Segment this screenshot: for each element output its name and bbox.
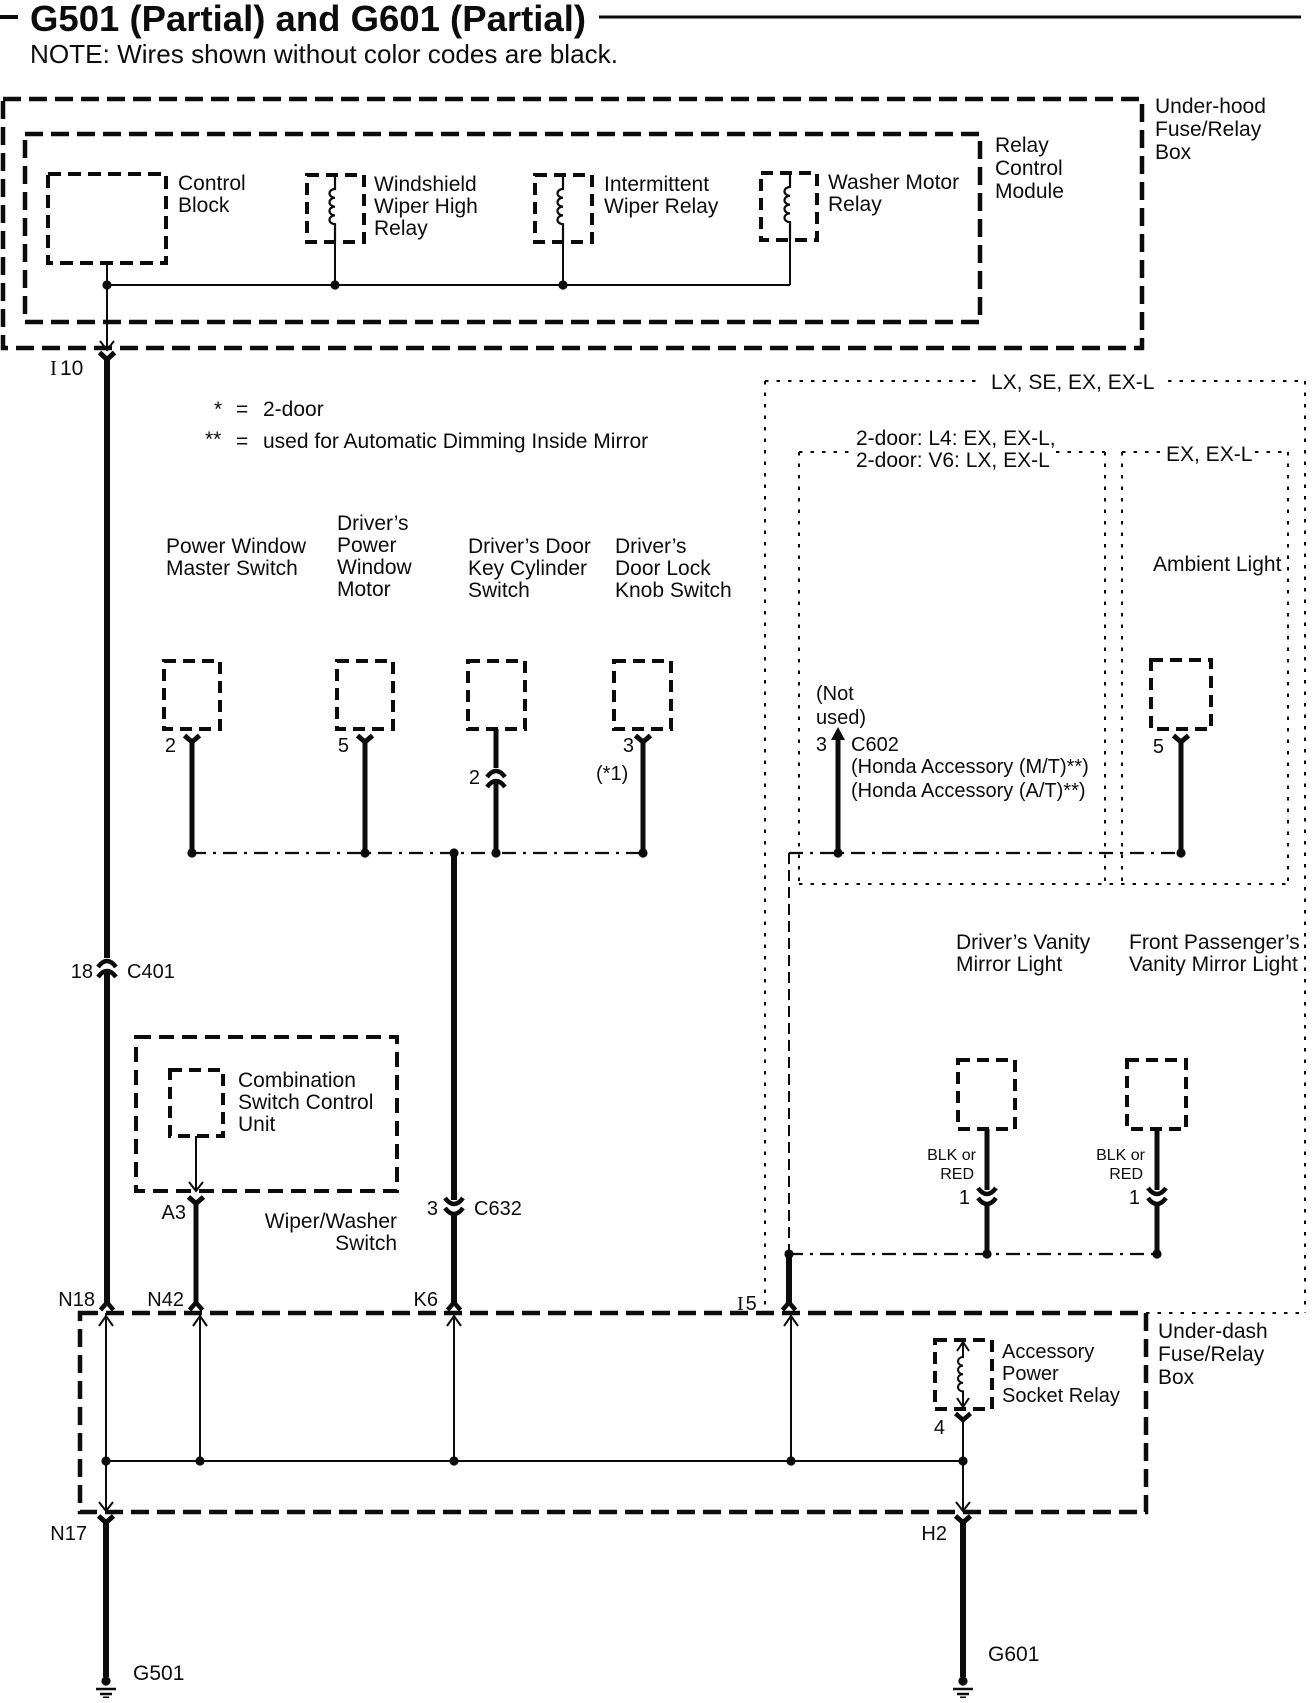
inline connector chevrons up [487, 771, 505, 777]
wire master switch to bus [190, 740, 195, 853]
riser wire I5 [790, 1313, 792, 1461]
svg-text:RED: RED [940, 1166, 974, 1183]
wire bus to I5 [786, 1254, 792, 1303]
svg-text:G501: G501 [133, 1662, 184, 1685]
LX,SE,EX,EX-L dotted region [765, 381, 1305, 1313]
bus inside module [107, 284, 790, 286]
svg-text:Socket Relay: Socket Relay [1002, 1385, 1120, 1407]
under-dash fuse/relay box [80, 1313, 1146, 1512]
svg-text:Door Lock: Door Lock [615, 557, 711, 580]
wire washer relay to bus [789, 240, 791, 285]
relay control module box [25, 134, 980, 322]
svg-text:*: * [214, 398, 222, 421]
connector I5 male end [783, 1303, 796, 1311]
arrow out of under-hood box [100, 341, 114, 350]
dashed link down to vanity bus [788, 853, 790, 1254]
wire control block to bus [106, 263, 108, 285]
riser wire K6 [453, 1313, 455, 1461]
driver's power window motor box [337, 661, 393, 729]
junction dot [491, 848, 500, 857]
wire ambient light to bus [1179, 740, 1184, 853]
svg-text:Fuse/Relay: Fuse/Relay [1155, 118, 1262, 141]
svg-text:3: 3 [623, 735, 634, 757]
svg-text:G501 (Partial) and G601 (Parti: G501 (Partial) and G601 (Partial) [30, 0, 586, 39]
svg-text:(Honda Accessory (M/T)**): (Honda Accessory (M/T)**) [851, 756, 1089, 778]
svg-text:3: 3 [427, 1198, 438, 1220]
svg-text:(Honda Accessory (A/T)**): (Honda Accessory (A/T)**) [851, 780, 1086, 802]
svg-text:=: = [236, 398, 248, 421]
connector C401 [71, 961, 175, 983]
svg-text:Under-dash: Under-dash [1158, 1320, 1268, 1343]
svg-text:Unit: Unit [238, 1113, 276, 1136]
wire relay to bottom bus [962, 1419, 964, 1461]
intermittent wiper relay [535, 173, 719, 242]
svg-text:Master Switch: Master Switch [166, 557, 298, 580]
svg-text:1: 1 [1129, 1187, 1140, 1209]
driver's door key cylinder switch box [468, 661, 525, 729]
wire window motor to bus [363, 740, 368, 853]
junction dot C602 [833, 848, 842, 857]
svg-text:Vanity Mirror Light: Vanity Mirror Light [1129, 953, 1298, 976]
connector N42 male end [190, 1303, 203, 1311]
svg-text:K6: K6 [414, 1289, 438, 1311]
junction dot ambient [1176, 848, 1185, 857]
wire C602 to bus [836, 740, 841, 853]
svg-text:I10: I10 [50, 356, 83, 380]
svg-text:Washer Motor: Washer Motor [828, 171, 959, 194]
svg-text:C602: C602 [851, 734, 899, 756]
connector A3 female terminal [189, 1197, 204, 1204]
svg-text:5: 5 [338, 735, 349, 757]
svg-text:Driver’s: Driver’s [615, 535, 687, 558]
pin 5 female terminal [1174, 736, 1189, 743]
riser wire N42 [199, 1313, 201, 1461]
wire key cylinder upper [494, 729, 499, 768]
svg-text:N17: N17 [50, 1523, 87, 1545]
combination switch control unit outer box [136, 1037, 397, 1191]
trunk wire C632 to K6 [451, 1214, 457, 1303]
connector C632 [427, 1198, 522, 1220]
svg-text:Under-hood: Under-hood [1155, 95, 1266, 118]
svg-text:G601: G601 [988, 1643, 1039, 1666]
svg-text:Wiper/Washer: Wiper/Washer [265, 1210, 397, 1233]
svg-text:used): used) [816, 707, 866, 729]
svg-text:Motor: Motor [337, 578, 391, 601]
washer motor relay [761, 171, 959, 240]
svg-text:C401: C401 [127, 961, 175, 983]
svg-text:N42: N42 [147, 1289, 184, 1311]
inline connector chevrons down [1148, 1188, 1166, 1194]
trunk wire I10 to C401 [104, 357, 110, 958]
wire vanity lower to bus [985, 1204, 990, 1254]
riser wire N18 [105, 1313, 107, 1461]
svg-text:(*1): (*1) [596, 763, 628, 785]
svg-text:NOTE: Wires shown without colo: NOTE: Wires shown without color codes ar… [30, 39, 618, 69]
ambient light box [1151, 660, 1211, 729]
vanity bus [789, 1253, 1157, 1255]
connector K6 male end [448, 1303, 461, 1311]
ground G501 [96, 1676, 116, 1697]
wire control unit down [195, 1136, 197, 1190]
svg-text:Control: Control [178, 172, 246, 195]
svg-text:Ambient Light: Ambient Light [1153, 553, 1282, 576]
drop wire to H2 [962, 1461, 964, 1511]
svg-text:H2: H2 [921, 1523, 947, 1545]
svg-text:Box: Box [1158, 1366, 1195, 1389]
svg-text:Relay: Relay [374, 217, 428, 240]
svg-text:Accessory: Accessory [1002, 1341, 1094, 1363]
pin 4 female terminal [956, 1414, 971, 1421]
connector C602 arrow terminal [831, 727, 845, 740]
driver's vanity mirror light box [958, 1060, 1015, 1129]
coil arrow up [957, 1342, 969, 1351]
svg-text:BLK or: BLK or [927, 1147, 977, 1164]
svg-text:Window: Window [337, 556, 413, 579]
svg-text:Module: Module [995, 180, 1064, 203]
svg-text:Block: Block [178, 194, 230, 217]
svg-text:RED: RED [1109, 1166, 1143, 1183]
inline connector chevrons down [978, 1188, 996, 1194]
svg-text:Relay: Relay [995, 134, 1049, 157]
svg-text:Switch: Switch [335, 1232, 397, 1255]
control block [48, 174, 166, 263]
svg-text:**: ** [205, 428, 221, 451]
connector N18 male end [101, 1303, 114, 1311]
left bus under switches [192, 852, 643, 854]
junction dot [187, 848, 196, 857]
ground G601 [953, 1676, 973, 1697]
EX,EX-L dotted box [1122, 452, 1288, 884]
svg-text:C632: C632 [474, 1198, 522, 1220]
svg-text:Power Window: Power Window [166, 535, 307, 558]
windshield wiper high relay [307, 173, 478, 242]
arrow out of combination box [189, 1182, 203, 1191]
driver's door lock knob switch box [614, 661, 671, 729]
svg-text:LX, SE, EX, EX-L: LX, SE, EX, EX-L [991, 371, 1154, 394]
svg-text:BLK or: BLK or [1096, 1147, 1146, 1164]
svg-text:Windshield: Windshield [374, 173, 477, 196]
junction dot intermittent [558, 280, 567, 289]
under-hood fuse/relay box [3, 99, 1142, 348]
title G501/G601 [0, 0, 1301, 39]
junction dot [638, 848, 647, 857]
junction dot [982, 1249, 991, 1258]
wire knob switch to bus [641, 740, 646, 853]
trunk wire C401 to N18 [104, 973, 110, 1303]
svg-text:Switch: Switch [468, 579, 530, 602]
svg-text:Switch Control: Switch Control [238, 1091, 373, 1114]
junction dot trunk [449, 848, 458, 857]
svg-text:Key Cylinder: Key Cylinder [468, 557, 587, 580]
svg-text:Front Passenger’s: Front Passenger’s [1129, 931, 1300, 954]
svg-text:5: 5 [1153, 736, 1164, 758]
svg-text:Knob Switch: Knob Switch [615, 579, 732, 602]
svg-text:18: 18 [71, 961, 93, 983]
coil arrow down [957, 1398, 969, 1407]
svg-text:Wiper Relay: Wiper Relay [604, 195, 719, 218]
power window master switch box [164, 661, 220, 729]
junction dot windshield [330, 280, 339, 289]
wire vanity lower to bus [1155, 1204, 1160, 1254]
svg-text:Fuse/Relay: Fuse/Relay [1158, 1343, 1265, 1366]
svg-text:Wiper High: Wiper High [374, 195, 478, 218]
wire A3 to N42 [194, 1202, 199, 1303]
legend [205, 398, 648, 453]
right bus under ambient [789, 852, 1181, 854]
svg-text:Power: Power [337, 534, 397, 557]
svg-text:=: = [236, 430, 248, 453]
svg-text:2-door: V6: LX, EX-L: 2-door: V6: LX, EX-L [856, 449, 1050, 472]
wire H2 to G601 [960, 1521, 966, 1677]
junction dot left [784, 1249, 793, 1258]
svg-text:Combination: Combination [238, 1069, 356, 1092]
svg-text:2: 2 [469, 767, 480, 789]
pin 2 female terminal [185, 736, 200, 743]
junction dot control block [102, 280, 111, 289]
svg-text:(Not: (Not [816, 683, 854, 705]
svg-text:A3: A3 [162, 1202, 186, 1224]
2-door trim dotted box [799, 452, 1288, 884]
pin 5 female terminal [358, 736, 373, 743]
svg-text:Box: Box [1155, 141, 1192, 164]
junction dot [360, 848, 369, 857]
accessory power socket relay box [935, 1340, 992, 1409]
junction dots bottom bus [101, 1456, 110, 1465]
svg-text:Mirror Light: Mirror Light [956, 953, 1062, 976]
junction dot [1152, 1249, 1161, 1258]
wire vanity upper [1155, 1129, 1160, 1190]
wire vanity upper [985, 1129, 990, 1190]
svg-text:Driver’s: Driver’s [337, 512, 409, 535]
connector H2 female terminal [956, 1516, 971, 1523]
pin 3 female terminal [636, 736, 651, 743]
connector N17 female terminal [99, 1516, 114, 1523]
svg-text:Control: Control [995, 157, 1063, 180]
wire down to I10 [106, 285, 108, 349]
svg-text:Power: Power [1002, 1363, 1059, 1385]
svg-text:Driver’s Door: Driver’s Door [468, 535, 591, 558]
connector I10 female terminal [100, 353, 115, 360]
svg-text:2-door: 2-door [263, 398, 324, 421]
svg-text:Relay: Relay [828, 193, 882, 216]
svg-text:3: 3 [816, 734, 827, 756]
trunk wire bus to C632 [451, 853, 457, 1200]
svg-text:used for Automatic Dimming Ins: used for Automatic Dimming Inside Mirror [263, 430, 648, 453]
svg-text:1: 1 [959, 1187, 970, 1209]
drop wire to N17 [105, 1461, 107, 1511]
wire N17 to G501 [103, 1521, 109, 1677]
svg-text:2-door: L4: EX, EX-L,: 2-door: L4: EX, EX-L, [856, 427, 1056, 450]
accessory relay coil [958, 1352, 963, 1398]
bottom bus [106, 1460, 963, 1462]
passenger vanity mirror light box [1127, 1060, 1186, 1129]
combination switch control unit inner box [170, 1070, 223, 1136]
svg-text:N18: N18 [58, 1289, 95, 1311]
wire windshield relay to bus [334, 242, 336, 285]
svg-text:4: 4 [934, 1417, 945, 1439]
svg-text:2: 2 [165, 735, 176, 757]
svg-text:EX, EX-L: EX, EX-L [1166, 443, 1252, 466]
svg-text:Intermittent: Intermittent [604, 173, 709, 196]
wire key cylinder lower to bus [494, 783, 499, 853]
svg-text:Driver’s Vanity: Driver’s Vanity [956, 931, 1091, 954]
wire intermittent relay to bus [562, 242, 564, 285]
